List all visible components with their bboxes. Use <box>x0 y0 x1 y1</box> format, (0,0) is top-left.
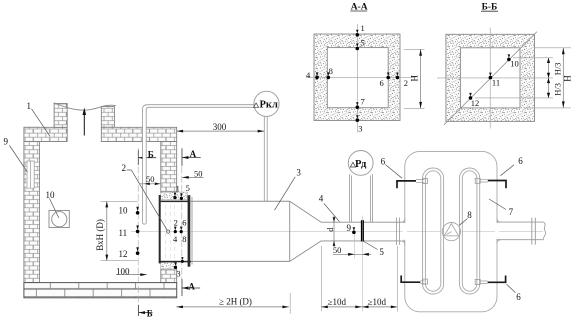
mark B top <box>138 149 156 165</box>
vessel outlet opening white <box>495 223 499 239</box>
section A-A title <box>350 3 368 13</box>
svg-text:6: 6 <box>518 156 523 166</box>
dimension >=10d right <box>362 297 397 308</box>
gauge Rkl <box>254 91 280 116</box>
dimension >=10d left <box>321 297 362 308</box>
A-A point 7 <box>356 97 365 109</box>
svg-text:7: 7 <box>361 97 365 107</box>
label 8 <box>459 210 472 225</box>
point 12 <box>119 247 140 259</box>
channel interior dashed texture <box>166 205 175 258</box>
fan symbol item 8 <box>442 223 460 241</box>
svg-text:Н: Н <box>562 75 572 82</box>
channel stipple block top <box>161 192 188 199</box>
svg-text:9: 9 <box>347 223 352 233</box>
probe port bracket bottom-right <box>475 276 505 285</box>
probe port bracket top-left <box>397 179 427 189</box>
peephole item 10 <box>49 211 69 228</box>
svg-text:ВхН (D): ВхН (D) <box>95 219 105 251</box>
channel flange dark bar <box>188 195 191 267</box>
dimension d <box>325 216 335 247</box>
left capsule baffle <box>423 168 444 294</box>
svg-text:А: А <box>190 149 197 159</box>
svg-text:10: 10 <box>119 205 129 215</box>
svg-text:7: 7 <box>509 207 514 217</box>
label 1 <box>27 101 51 137</box>
dimension 50 left of wall <box>139 174 160 185</box>
label 9 <box>4 137 28 173</box>
svg-text:50: 50 <box>146 174 155 184</box>
gauge Rd stand legs <box>349 174 372 222</box>
B-B point 11 <box>489 73 500 88</box>
point 5 top <box>180 183 190 200</box>
svg-text:300: 300 <box>213 122 227 132</box>
ext line cone base <box>289 293 291 314</box>
label 6 top-right <box>501 156 524 176</box>
B-B point 10 <box>507 54 519 68</box>
A-A point 2 <box>396 73 408 89</box>
channel top line dark <box>161 201 190 203</box>
svg-text:5: 5 <box>361 38 365 48</box>
label 6 top-left <box>381 156 402 178</box>
ext line vessel inlet <box>396 246 398 312</box>
A-A point 3 <box>356 115 363 133</box>
point 10 <box>119 205 140 215</box>
A-A point 6 <box>380 73 391 88</box>
svg-text:8: 8 <box>182 234 186 244</box>
duct top line <box>190 200 290 202</box>
svg-text:100: 100 <box>116 267 130 277</box>
right capsule baffle <box>460 168 480 294</box>
mark B bottom <box>139 305 153 318</box>
svg-text:≥ 2H (D): ≥ 2H (D) <box>219 296 252 306</box>
section B-B walls <box>446 34 535 121</box>
furnace right wall lower <box>161 269 177 283</box>
svg-text:≥10d: ≥10d <box>368 297 387 307</box>
svg-text:2: 2 <box>174 217 178 227</box>
A-A dimension H <box>404 49 425 108</box>
A-A point 1 <box>356 23 365 37</box>
furnace top wall left band <box>24 127 67 141</box>
chimney break wavy line <box>54 103 116 110</box>
probe port bracket bottom-left <box>401 276 427 285</box>
svg-text:1: 1 <box>361 23 365 33</box>
points 4 8 labels <box>173 234 186 244</box>
section B-B centerlines <box>437 28 553 129</box>
label 7 <box>489 199 514 217</box>
section A-A walls <box>314 34 400 121</box>
B-B H/3 extension lines <box>475 58 553 98</box>
chimney right wall <box>101 107 114 128</box>
svg-text:6: 6 <box>381 156 386 166</box>
dimension 100 <box>116 267 147 277</box>
section plane B line <box>137 148 139 316</box>
B-B dimension H <box>524 48 572 108</box>
point 11 <box>119 225 140 237</box>
point 2/6 dots <box>174 227 183 234</box>
svg-text:Рд: Рд <box>355 159 367 170</box>
svg-text:Б: Б <box>148 149 154 159</box>
duct axis centerline <box>131 231 543 233</box>
section B-B diagonal <box>444 32 537 125</box>
section plane A line <box>181 148 183 296</box>
dimension >=2H (D) <box>176 296 289 308</box>
svg-text:3: 3 <box>296 167 301 177</box>
A-A point 8 <box>327 66 333 79</box>
label 6 bottom-right <box>507 284 522 302</box>
vessel shell <box>405 151 497 311</box>
label 5 <box>364 242 384 257</box>
svg-text:Н: Н <box>410 75 420 82</box>
point 1 top <box>173 184 179 200</box>
svg-text:12: 12 <box>119 249 128 259</box>
A-A point 5 <box>356 38 365 51</box>
section A-A centerlines <box>306 24 416 133</box>
svg-text:9: 9 <box>4 137 9 147</box>
svg-text:6: 6 <box>516 292 521 302</box>
svg-text:Н/3: Н/3 <box>553 62 563 75</box>
svg-text:8: 8 <box>329 66 333 76</box>
label 3 duct <box>275 167 302 210</box>
label 2 with leader to sampling circle <box>122 163 170 233</box>
svg-text:6: 6 <box>380 78 384 88</box>
vessel inlet opening white <box>403 223 407 240</box>
mark A top <box>182 149 201 167</box>
point 7 bottom small <box>181 257 184 263</box>
chimney flue arrow <box>83 108 87 136</box>
svg-text:2: 2 <box>122 163 127 173</box>
svg-text:Ркл: Ркл <box>260 100 278 111</box>
pipe top and bottom <box>321 222 405 241</box>
outlet pipe fillets <box>497 218 501 244</box>
label 10 <box>46 190 59 218</box>
cone slopes <box>290 201 322 261</box>
points 2 6 labels <box>174 217 187 227</box>
point 9 <box>347 223 356 258</box>
svg-text:10: 10 <box>46 190 56 200</box>
svg-text:4: 4 <box>319 193 324 203</box>
svg-text:8: 8 <box>467 210 472 220</box>
cone base vertical <box>289 201 291 261</box>
svg-text:10: 10 <box>510 59 519 69</box>
section B-B title <box>481 3 498 13</box>
svg-text:Н/3: Н/3 <box>553 83 563 96</box>
svg-text:5: 5 <box>186 183 190 193</box>
duct bottom line <box>191 260 290 262</box>
channel bottom line dark <box>159 261 191 263</box>
svg-text:50: 50 <box>194 168 203 178</box>
furnace left wall <box>24 127 40 282</box>
dimension 50 at orifice <box>333 245 371 256</box>
channel stipple block bottom <box>161 262 177 269</box>
inlet pipe fillets <box>401 218 405 245</box>
B-B point 12 <box>469 93 480 108</box>
inlet pipe flange <box>397 218 400 246</box>
furnace top wall right band <box>101 127 176 141</box>
probe port bracket top-right <box>475 178 506 188</box>
svg-text:А: А <box>188 282 195 292</box>
dimension BxH (D) <box>95 201 138 260</box>
probe tube from Rkl gauge down into furnace <box>143 105 268 224</box>
label 4 pipe <box>319 193 340 221</box>
svg-text:11: 11 <box>119 228 128 238</box>
svg-text:5: 5 <box>379 247 384 257</box>
furnace right wall upper <box>161 142 177 193</box>
ext line cone tip <box>320 246 322 311</box>
svg-text:6: 6 <box>182 217 186 227</box>
furnace floor <box>24 283 177 298</box>
svg-text:3: 3 <box>176 269 180 279</box>
svg-text:1: 1 <box>27 101 32 111</box>
mark A bottom <box>182 279 200 296</box>
svg-text:3: 3 <box>358 124 362 134</box>
svg-text:11: 11 <box>492 78 500 88</box>
svg-text:50: 50 <box>333 245 342 255</box>
channel flange outer line <box>191 197 193 265</box>
orifice plate item 5 <box>361 220 364 241</box>
chimney left wall <box>54 104 67 128</box>
svg-text:2: 2 <box>404 78 408 88</box>
orifice centerline vertical <box>361 216 363 312</box>
A-A point 4 <box>306 70 319 80</box>
svg-text:≥10d: ≥10d <box>328 297 347 307</box>
wall slot item 9 <box>26 161 34 188</box>
svg-text:Б: Б <box>147 308 153 318</box>
gauge Rd <box>348 151 373 176</box>
svg-text:12: 12 <box>471 98 480 108</box>
svg-text:1: 1 <box>176 184 180 194</box>
B-B H/3 dimension line <box>547 58 563 98</box>
dimension 50 right of wall <box>182 168 203 178</box>
point 3 bottom <box>174 262 181 278</box>
outlet pipe <box>497 218 546 245</box>
dimension 300 <box>177 122 265 133</box>
channel left wall dark <box>159 195 161 263</box>
